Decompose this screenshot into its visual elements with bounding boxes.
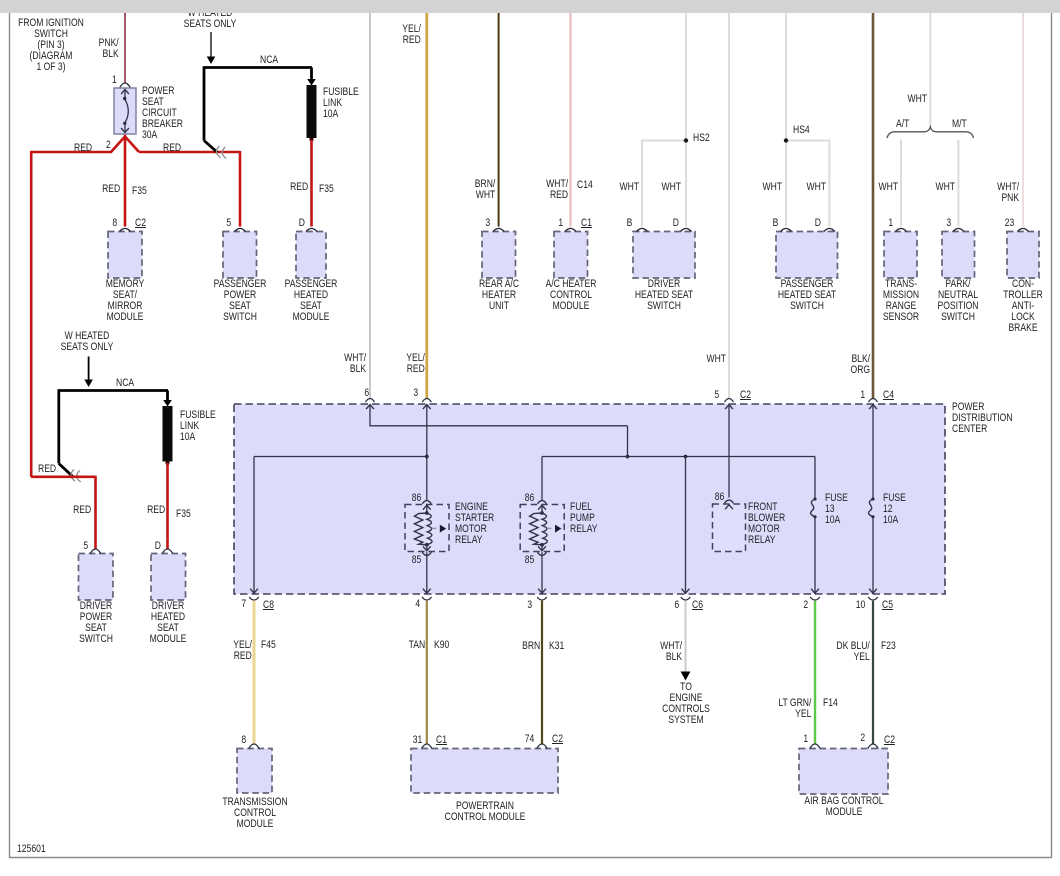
wire BLK/ORG to PDC pin1 (872, 13, 875, 399)
label DRIVER POWER SEAT SWITCH caption (37, 601, 154, 645)
label C4 pdc (883, 390, 894, 401)
wire BRN/WHT (498, 13, 500, 227)
label K31 (549, 641, 564, 652)
label BRN (522, 641, 540, 652)
connector PARK/NEUTRAL POSITION SWITCH (942, 228, 975, 278)
label C14 (577, 180, 593, 191)
label diagram number 125601 (17, 844, 46, 855)
power distribution center box (234, 404, 945, 594)
label M/T (952, 119, 967, 130)
PDC wire pin6C6 drop (682, 455, 690, 594)
label FRONT BLOWER MOTOR RELAY caption (748, 502, 785, 546)
label BLK/ORG pdc1 (850, 354, 870, 376)
label pin B driver heated (626, 218, 632, 229)
node HS2 (642, 138, 688, 142)
label PNK/BLK (99, 38, 119, 60)
label CONTROLLER ANTI-LOCK BRAKE caption (964, 279, 1060, 334)
label PASSENGER HEATED SEAT SWITCH caption (748, 279, 865, 312)
label POWER SEAT CIRCUIT BREAKER 30A (142, 86, 183, 141)
label C5 pdc (882, 600, 893, 611)
label TAN (409, 640, 426, 651)
PDC top entry pin6 (366, 399, 375, 410)
circuit breaker box (114, 88, 136, 134)
label ENGINE STARTER MOTOR RELAY caption (455, 502, 494, 546)
label YEL/RED pdc3 (406, 353, 425, 375)
label PARK/NEUTRAL POSITION SWITCH caption (900, 279, 1017, 323)
wire NCA lower black (59, 389, 168, 476)
label A/T (896, 119, 909, 130)
label C2 airbag (884, 735, 895, 746)
label F23 (881, 641, 896, 652)
label WHT driver B (620, 182, 640, 193)
wire WHT HS2 to pin B (641, 140, 643, 227)
label REAR A/C HEATER UNIT caption (441, 279, 558, 312)
wire WHT HS4 to pin D (828, 140, 830, 227)
splice symbol lower (71, 470, 81, 483)
wire WHT M/T (957, 140, 959, 227)
wire WHT to A/T M/T brace (929, 13, 931, 127)
label pin D driver heated (155, 541, 161, 552)
label pin D passenger heated module (298, 218, 304, 229)
label pin 4 pdc (416, 599, 421, 610)
label RED lower horiz (38, 464, 56, 475)
label POWER DISTRIBUTION CENTER (952, 402, 1013, 435)
circuit breaker symbol (121, 90, 129, 133)
PDC top entry pin3 (422, 399, 431, 410)
wire RED from fusible link lower (165, 461, 169, 549)
wire LT GRN/YEL to airbag (814, 601, 816, 744)
label C1 pcm (436, 735, 447, 746)
wire BRN to PCM (541, 601, 543, 744)
label ENGINE STARTER MOTOR RELAY 86 (411, 493, 421, 504)
label pin 10 pdc (856, 600, 866, 611)
label FRONT BLOWER 86 (714, 492, 724, 503)
label WHT trans (878, 182, 898, 193)
PDC bottom exit 4 (422, 597, 432, 600)
label FUSIBLE LINK 10A upper (323, 87, 359, 120)
wire NCA upper black (204, 66, 312, 152)
label pin 5 pdc (715, 390, 720, 401)
label RED right (163, 143, 181, 154)
label TO ENGINE CONTROLS SYSTEM (627, 682, 744, 726)
label WHT/BLK pdc6 (344, 353, 366, 375)
label pin 7 pdc (242, 599, 247, 610)
label WHT/BLK bottom (660, 641, 682, 663)
wire WHT A/T (900, 140, 902, 227)
connector POWERTRAIN CONTROL MODULE (411, 744, 558, 793)
label pin 1 airbag (804, 734, 809, 745)
wire WHT to HS2 (685, 13, 687, 227)
label F35 fusible upper (319, 184, 334, 195)
label pin 3 pdc (413, 388, 418, 399)
PDC bus y456 left (254, 456, 427, 458)
PDC wire fuelpump feed (541, 457, 543, 501)
connector A/C HEATER CONTROL MODULE (554, 228, 588, 278)
wire YEL/RED to TCM (253, 601, 256, 744)
label FUEL PUMP RELAY 85 (525, 555, 535, 566)
arrow from note lower (84, 357, 93, 388)
PDC wire pin5 to blower (728, 405, 730, 498)
label FROM IGNITION SWITCH note (0, 18, 110, 73)
label AIR BAG CONTROL MODULE caption (785, 796, 902, 818)
label C1 ac heater (581, 218, 592, 229)
connector TRANSMISSION RANGE SENSOR (884, 228, 917, 278)
label WHT brace (907, 94, 927, 105)
label A/C HEATER CONTROL MODULE caption (512, 279, 629, 312)
PDC bottom exit 7 C8 (249, 597, 259, 600)
label WHT passenger D (806, 182, 826, 193)
connector DRIVER HEATED SEAT SWITCH (633, 228, 695, 278)
label WHT passenger B (762, 182, 782, 193)
label C8 pdc (263, 600, 274, 611)
label pin 2 pdc (803, 600, 808, 611)
label HS2 (693, 133, 710, 144)
fuse FUSE 12 (869, 497, 877, 594)
label FUEL PUMP RELAY 86 (525, 493, 535, 504)
connector MEMORY SEAT/MIRROR MODULE (108, 228, 142, 278)
label WHT/RED (546, 179, 568, 201)
wire PNK/BLK (124, 13, 126, 84)
wire WHT/RED (570, 13, 572, 227)
label F45 (261, 640, 276, 651)
label TRANSMISSION CONTROL MODULE caption (196, 797, 313, 830)
label F35 driver heated (176, 509, 191, 520)
wire RED from fusible link upper (309, 137, 313, 226)
PDC wire pin7 drop (250, 457, 258, 595)
label pin 8 memory (112, 218, 117, 229)
fusible link lower (163, 406, 173, 462)
arrow from note upper (207, 32, 216, 64)
connector CONTROLLER ANTI-LOCK BRAKE (1007, 228, 1039, 278)
label FUSE 12 caption (883, 493, 906, 526)
label TRANSMISSION RANGE SENSOR caption (842, 279, 959, 323)
label HS4 (793, 125, 810, 136)
label pin 6 pdc bottom (674, 600, 679, 611)
label NCA lower (116, 378, 134, 389)
label C2 pcm (552, 734, 563, 745)
relay FUEL PUMP RELAY (520, 501, 564, 594)
label pin D passenger heated (815, 218, 821, 229)
wire to fusible link lower (163, 391, 172, 407)
PDC wire pin1 to fuse12 (872, 405, 874, 499)
label FUSE 13 caption (825, 493, 848, 526)
label PASSENGER POWER SEAT SWITCH caption (182, 279, 299, 323)
fusible link upper (307, 85, 317, 138)
label pin 1 ac heater (558, 218, 563, 229)
PDC bus y426 (370, 425, 628, 427)
label W HEATED SEATS ONLY lower (28, 331, 145, 353)
label C2 memory (135, 218, 146, 229)
label RED driver heated (147, 505, 165, 516)
label RED fusible upper (290, 182, 308, 193)
PDC bus y456 right (542, 456, 815, 458)
label pin 8 tcm (241, 735, 246, 746)
label pin 2 airbag (861, 733, 866, 744)
relay ENGINE STARTER MOTOR RELAY (405, 501, 449, 594)
label pin 31 pcm (412, 735, 422, 746)
brace A/T M/T (887, 127, 974, 138)
label ENGINE STARTER MOTOR RELAY 85 (411, 555, 421, 566)
wire to fusible link upper (307, 68, 316, 86)
label pin D driver heated (672, 218, 678, 229)
top gray band (0, 0, 1060, 13)
label POWERTRAIN CONTROL MODULE caption (426, 801, 543, 823)
wire WHT to PDC pin5 (728, 13, 730, 399)
PDC top entry pin5 (725, 399, 734, 410)
label F14 (823, 698, 838, 709)
PDC bottom exit 3 (537, 597, 547, 600)
wire RED lower horizontal (31, 476, 96, 549)
label WHT pdc5 (706, 354, 726, 365)
label pin 3 park neutral (946, 218, 951, 229)
label C2 pdc (740, 390, 751, 401)
label LT GRN/YEL (778, 698, 811, 720)
label pin 74 pcm (524, 734, 534, 745)
label pin 1 (112, 75, 117, 86)
label RED driver power (73, 505, 91, 516)
node HS4 (784, 138, 830, 142)
label pin 3 rear ac (485, 218, 490, 229)
PDC bottom exit 6 C6 (681, 597, 691, 600)
PDC bottom exit 10 C5 (868, 597, 878, 600)
wire WHT/PNK (1022, 13, 1024, 227)
connector AIR BAG CONTROL MODULE (799, 744, 888, 794)
label DK BLU/YEL (837, 641, 870, 663)
label W HEATED SEATS ONLY upper (151, 8, 268, 30)
relay FRONT BLOWER MOTOR RELAY (713, 500, 746, 551)
connector PASSENGER POWER SEAT SWITCH (223, 228, 257, 278)
label BRN/WHT (475, 179, 495, 201)
label pin 2 (106, 140, 111, 151)
label F35 center drop (132, 186, 147, 197)
PDC top entry pin1 (869, 399, 878, 410)
label WHT/PNK (997, 182, 1019, 204)
label K90 (434, 640, 449, 651)
label MEMORY SEAT/MIRROR MODULE caption (67, 279, 184, 323)
connector TRANSMISSION CONTROL MODULE (237, 744, 272, 793)
label WHT driver D (662, 182, 682, 193)
connector PASSENGER HEATED SEAT SWITCH (776, 228, 838, 278)
connector PASSENGER HEATED SEAT MODULE (296, 228, 326, 278)
label RED center drop (102, 184, 120, 195)
label pin 1 pdc (860, 390, 865, 401)
label pin 3 pdc bottom (528, 600, 533, 611)
label DRIVER HEATED SEAT SWITCH caption (606, 279, 723, 312)
label pin 5 passenger power (227, 218, 232, 229)
PDC bottom exit 2 (810, 597, 820, 600)
label RED left (74, 143, 92, 154)
label pin 5 driver power (84, 541, 89, 552)
PDC riser x627 (626, 426, 630, 459)
connector DRIVER POWER SEAT SWITCH (79, 549, 114, 600)
label YEL/RED top (402, 24, 421, 46)
splice symbol upper (216, 146, 226, 159)
wire TAN to PCM (426, 601, 428, 744)
wire DK BLU/YEL to airbag (872, 601, 874, 744)
fuse FUSE 13 (811, 497, 819, 594)
connector DRIVER HEATED SEAT MODULE (151, 549, 186, 600)
PDC wire fuse13 riser (814, 457, 816, 499)
label FUEL PUMP RELAY caption (570, 502, 598, 535)
label C6 pdc (692, 600, 703, 611)
wire RED branch Y (31, 135, 240, 477)
label PASSENGER HEATED SEAT MODULE caption (253, 279, 370, 323)
PDC wire pin6 riser (369, 405, 371, 427)
label pin 1 trans range (888, 218, 893, 229)
wire WHT to HS4 (785, 13, 787, 227)
PDC wire pin3 to relay86 (425, 405, 429, 501)
label WHT park (935, 182, 955, 193)
label pin B passenger heated (772, 218, 778, 229)
connector REAR A/C HEATER UNIT (482, 228, 516, 278)
label NCA upper (260, 55, 278, 66)
label FUSIBLE LINK 10A lower (180, 410, 216, 443)
label YEL/RED bottom (233, 640, 252, 662)
wire WHT/BLK to PDC pin6 (369, 13, 371, 399)
label pin 23 controller (1004, 218, 1014, 229)
label pin 6 pdc (365, 388, 370, 399)
label DRIVER HEATED SEAT MODULE caption (110, 601, 227, 645)
pin 1 terminal arc (120, 83, 130, 88)
wire WHT/BLK to engine controls (681, 601, 691, 681)
wire YEL/RED to PDC pin3 (425, 13, 428, 399)
